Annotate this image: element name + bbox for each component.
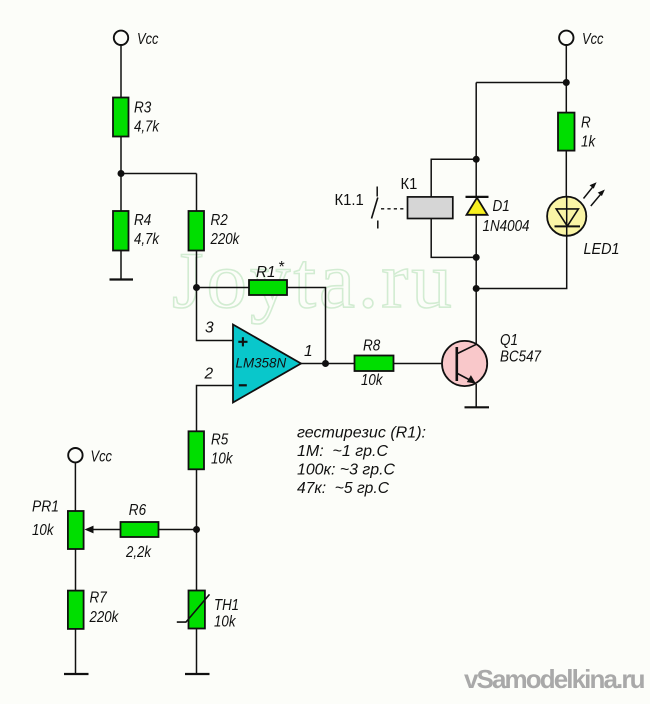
power Vcc (bottom left) <box>68 448 112 466</box>
svg-text:10k: 10k <box>361 372 384 389</box>
svg-text:R8: R8 <box>363 338 381 355</box>
resistor R8 <box>355 338 394 372</box>
wire PR1 to R7 <box>75 549 77 591</box>
svg-text:R7: R7 <box>90 590 108 607</box>
op-amp U1 LM358N <box>233 325 301 403</box>
wire D1 anode down to Q1 collector <box>475 215 477 345</box>
resistor R4 <box>113 211 152 251</box>
node D junction <box>563 79 570 86</box>
wire relay K1 bottom to node F <box>431 219 476 258</box>
node C junction (output/feedback) <box>322 360 329 367</box>
resistor R1 <box>249 259 287 295</box>
svg-text:10k: 10k <box>32 522 55 539</box>
svg-text:4,7k: 4,7k <box>134 119 160 136</box>
relay K1 coil <box>401 176 453 219</box>
svg-text:4,7k: 4,7k <box>134 231 160 248</box>
resistor R3 <box>113 98 152 137</box>
diode D1 <box>466 197 510 215</box>
wire R3 to node A <box>120 137 122 175</box>
power Vcc (top left) <box>114 31 159 48</box>
pin 2 wire to R5 <box>197 386 234 432</box>
wire R7 to ground <box>75 629 77 674</box>
wire node B down to pin 3 <box>197 288 234 341</box>
svg-text:LED1: LED1 <box>584 241 620 258</box>
svg-text:Joyta.ru: Joyta.ru <box>172 235 455 325</box>
svg-text:гестирезис (R1):: гестирезис (R1): <box>297 425 426 442</box>
svg-text:PR1: PR1 <box>32 499 59 516</box>
watermark joyta.ru <box>172 235 455 325</box>
wire R5 to TH1 <box>196 469 198 590</box>
wire Vcc2 down <box>565 45 567 83</box>
node E junction (relay top) <box>473 156 480 163</box>
wire LED1 bottom to node G <box>476 236 567 289</box>
svg-text:LM358N: LM358N <box>236 356 287 371</box>
svg-text:TH1: TH1 <box>214 597 239 614</box>
svg-text:R: R <box>581 115 591 132</box>
note hysteresis text <box>297 425 426 498</box>
svg-text:1N4004: 1N4004 <box>483 218 530 235</box>
wire Vcc3 to PR1 <box>74 463 76 512</box>
wire node E to relay K1 top <box>431 159 476 197</box>
svg-text:vSamodelkina.ru: vSamodelkina.ru <box>464 664 645 694</box>
svg-text:Vcc: Vcc <box>91 449 113 466</box>
resistor R6 <box>121 502 159 537</box>
svg-text:R4: R4 <box>134 212 152 229</box>
wire node D to resistor R <box>565 83 567 113</box>
svg-text:2: 2 <box>204 366 214 383</box>
svg-text:Vcc: Vcc <box>137 31 159 48</box>
transistor Q1 BC547 <box>442 332 518 386</box>
wire R6 to node H <box>159 529 197 531</box>
ground (below R7) <box>64 673 89 675</box>
node A junction <box>118 170 125 177</box>
svg-text:R2: R2 <box>211 212 229 229</box>
switch K1.1 <box>335 187 407 229</box>
wire node A right branch <box>121 173 197 175</box>
node F junction (relay bottom) <box>473 254 480 261</box>
PR1 wiper arrow <box>85 526 121 534</box>
svg-text:100к: ~3 гр.С: 100к: ~3 гр.С <box>297 462 395 479</box>
svg-text:3: 3 <box>205 320 214 337</box>
wire Q1 emitter to ground <box>475 384 477 407</box>
svg-text:R6: R6 <box>129 502 147 519</box>
wire R1 to feedback corner <box>287 288 326 364</box>
wire down to R2 <box>196 174 198 212</box>
wire R2 to node B <box>196 251 198 288</box>
wire node B to R1 <box>197 287 250 289</box>
svg-text:Q1: Q1 <box>500 332 518 349</box>
svg-text:R1: R1 <box>256 264 276 281</box>
ground (below TH1) <box>185 673 210 675</box>
wire node A to R4 <box>120 174 122 212</box>
wire node D left branch <box>476 82 566 84</box>
resistor R7 <box>68 590 108 629</box>
wire down to D1 cathode <box>475 83 477 198</box>
svg-text:К1: К1 <box>401 176 418 193</box>
svg-text:BC547: BC547 <box>500 349 542 366</box>
watermark vsamodelkina.ru <box>464 664 645 694</box>
svg-text:10k: 10k <box>214 614 237 631</box>
svg-text:Vcc: Vcc <box>582 31 604 48</box>
svg-text:220k: 220k <box>210 231 241 248</box>
svg-text:47к: ~5 гр.С: 47к: ~5 гр.С <box>297 480 389 497</box>
svg-text:К1.1: К1.1 <box>335 192 364 209</box>
resistor R5 <box>189 431 229 469</box>
svg-text:D1: D1 <box>493 198 510 215</box>
thermistor TH1 <box>177 591 239 629</box>
node H junction <box>193 526 200 533</box>
op-amp output wire <box>301 363 355 365</box>
node B junction <box>193 284 200 291</box>
wire R4 to ground <box>120 251 122 280</box>
node G junction (LED return) <box>473 285 480 292</box>
resistor R2 <box>189 211 229 251</box>
ground (below Q1) <box>465 406 490 408</box>
wire R8 to Q1 base <box>394 363 458 365</box>
wire TH1 to ground <box>196 629 198 675</box>
power Vcc (top right) <box>559 31 604 48</box>
ground (below R4) <box>110 278 134 280</box>
svg-text:1k: 1k <box>581 134 596 151</box>
svg-text:*: * <box>278 259 285 276</box>
svg-text:R3: R3 <box>134 100 152 117</box>
potentiometer PR1 <box>32 499 84 550</box>
wire Vcc1 to R3 <box>120 45 122 98</box>
svg-text:R5: R5 <box>211 431 229 448</box>
LED LED1 <box>547 182 605 236</box>
svg-text:10k: 10k <box>211 451 234 468</box>
svg-text:220k: 220k <box>89 609 120 626</box>
wire R to LED1 <box>565 151 567 198</box>
resistor R <box>558 113 591 151</box>
svg-text:2,2k: 2,2k <box>125 544 152 561</box>
svg-text:1М: ~1 гр.С: 1М: ~1 гр.С <box>297 443 388 460</box>
svg-text:1: 1 <box>304 343 313 360</box>
